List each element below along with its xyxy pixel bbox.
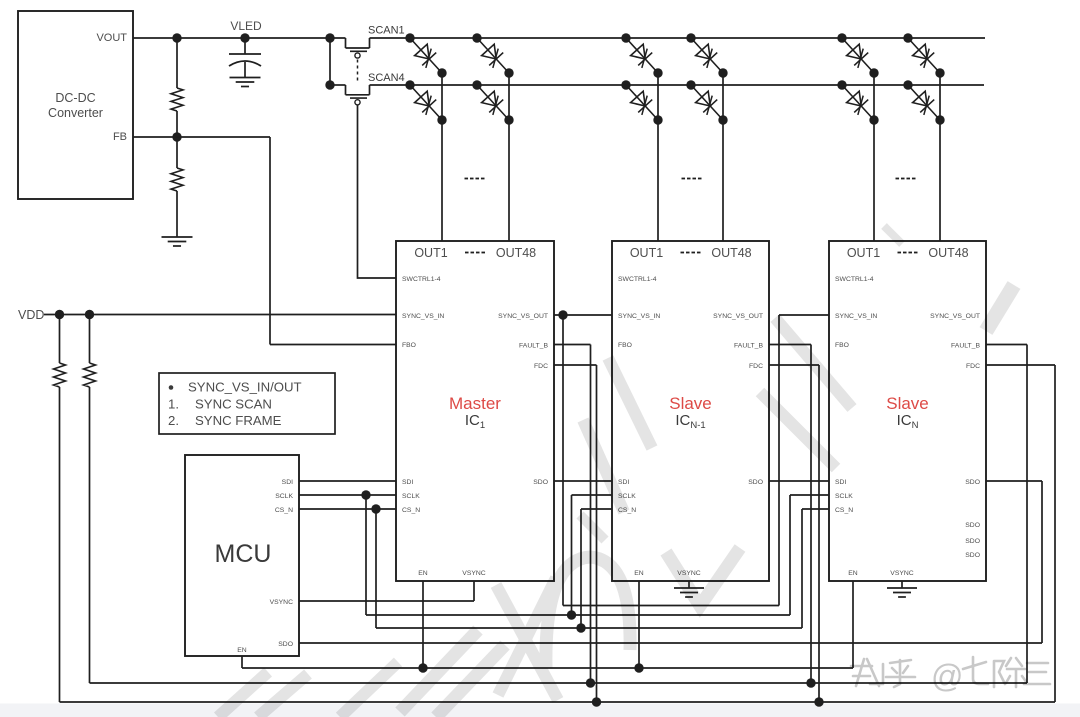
svg-text:@: @ (931, 658, 963, 694)
